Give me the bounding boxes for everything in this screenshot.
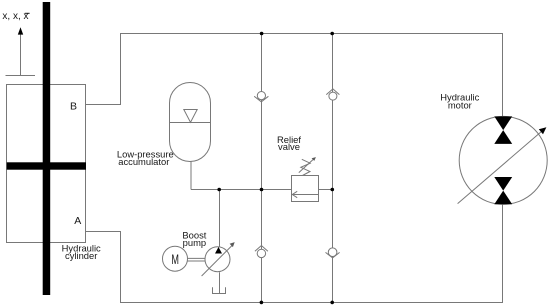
svg-text:valve: valve [278, 141, 300, 152]
svg-text:B: B [70, 100, 77, 112]
svg-text:M: M [171, 251, 179, 267]
svg-text:cylinder: cylinder [65, 250, 97, 261]
svg-text:pump: pump [183, 237, 206, 248]
svg-text:motor: motor [448, 100, 472, 111]
svg-text:x, x, x: x, x, x [2, 11, 28, 22]
svg-text:accumulator: accumulator [118, 156, 169, 167]
svg-text:A: A [74, 215, 81, 227]
